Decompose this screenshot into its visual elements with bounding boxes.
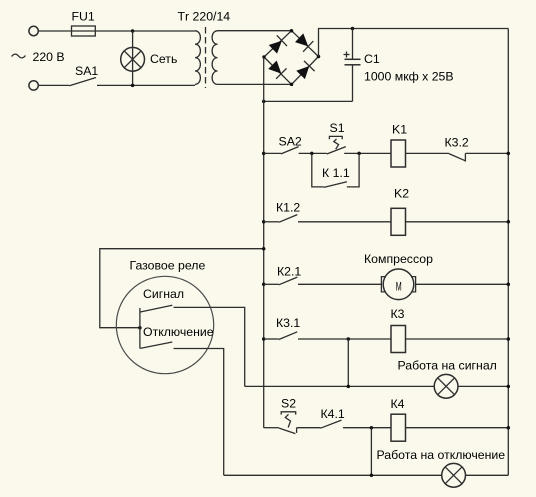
svg-text:Отключение: Отключение: [143, 325, 214, 339]
svg-text:К1.2: К1.2: [276, 201, 300, 215]
svg-text:220 В: 220 В: [33, 50, 65, 64]
svg-text:К4.1: К4.1: [321, 407, 345, 421]
svg-text:К3.1: К3.1: [276, 316, 300, 330]
label К1.2: [276, 201, 300, 215]
label Сигнал: [143, 287, 184, 301]
node lamp1 branch top: [347, 337, 351, 341]
svg-text:Работа на сигнал: Работа на сигнал: [398, 358, 497, 372]
wire lamp2 branch vertical: [370, 428, 372, 476]
svg-text:Сигнал: Сигнал: [143, 287, 184, 301]
wire lamp1 to right rail: [458, 385, 508, 387]
node bridge bottom: [290, 83, 294, 87]
wire lamp2 row left: [224, 474, 442, 476]
node row4 right: [507, 337, 511, 341]
wire lamp1 branch vertical: [347, 339, 349, 386]
wire left negative rail: [263, 57, 265, 428]
transformer T1 secondary winding: [212, 31, 217, 85]
label C1: [364, 52, 380, 66]
node K1.1 branch right: [357, 152, 361, 156]
svg-text:Сеть: Сеть: [150, 52, 177, 66]
contact К2.1: [279, 277, 298, 285]
bridge arm top-left: [264, 31, 292, 57]
contact SA2: [281, 147, 299, 154]
wire row1 rail to SA2: [264, 152, 281, 154]
node C1 top junction: [351, 27, 355, 31]
lamp HL off: [442, 463, 466, 487]
node gas relay common: [138, 326, 142, 330]
relay coil К3: [391, 326, 406, 353]
terminal input top: [29, 26, 38, 35]
wire motor to right rail: [416, 283, 509, 285]
terminal input bottom: [29, 81, 38, 90]
svg-text:К3.2: К3.2: [445, 136, 469, 150]
wire K2 to right rail: [406, 221, 509, 223]
wire S2 to K4.1: [297, 427, 321, 429]
contact К3.1: [279, 332, 298, 340]
label К4.1: [321, 407, 345, 421]
wire row4 rail to K3.1: [264, 338, 279, 340]
button S1: [327, 136, 346, 154]
wire SA2 to S1: [299, 152, 327, 154]
svg-text:Работа на отключение: Работа на отключение: [377, 448, 506, 462]
wire K3.1 to K3 coil: [298, 338, 391, 340]
svg-text:Компрессор: Компрессор: [364, 252, 433, 266]
label К3.2: [445, 136, 469, 150]
wire S1 to K1 coil: [344, 152, 391, 154]
label Компрессор: [364, 252, 433, 266]
wire K1.2 to K2 coil: [298, 221, 391, 223]
label Работа на отключение: [377, 448, 506, 462]
transformer T1 primary winding: [195, 31, 200, 85]
label K2: [394, 187, 409, 201]
svg-text:SA2: SA2: [279, 135, 302, 149]
contact gas relay off: [140, 342, 172, 348]
node lamp2 branch top: [370, 426, 374, 430]
node lamp1 right: [507, 385, 511, 389]
wire fuse to transformer primary top: [95, 30, 195, 32]
wire row3 rail to K2.1: [264, 283, 279, 285]
wire bottom input to SA1: [39, 84, 70, 86]
node bridge right: [317, 55, 321, 59]
wire secondary bottom to bridge bottom node: [218, 83, 292, 85]
contact gas relay signal: [140, 305, 172, 312]
gas relay circle: [116, 276, 213, 373]
capacitor C1: [344, 29, 361, 102]
wire right positive rail: [507, 29, 509, 476]
contact К1.2: [279, 215, 298, 223]
label 220 В: [33, 50, 65, 64]
node lamp top: [131, 29, 135, 33]
diode VD4: [295, 61, 314, 80]
button S2 normally closed: [279, 412, 297, 434]
contact К4.1: [321, 420, 342, 428]
lamp Сеть: [121, 47, 145, 71]
diode VD3: [267, 60, 286, 79]
wire row2 rail to K1.2: [264, 221, 279, 223]
relay coil К4: [391, 414, 406, 441]
svg-text:Газовое реле: Газовое реле: [130, 259, 206, 273]
lamp HL signal: [434, 374, 458, 398]
fuse FU1: [72, 26, 96, 36]
motor M compressor: [381, 269, 415, 300]
wire K4.1 to K4 coil: [343, 427, 391, 429]
node row2 left: [262, 220, 266, 224]
node lamp bottom: [131, 84, 135, 88]
svg-text:C1: C1: [364, 52, 380, 66]
node row1 right: [507, 152, 511, 156]
label S2: [281, 397, 296, 411]
wire top input to fuse: [39, 30, 72, 32]
AC symbol ~: [12, 54, 26, 58]
node bridge top: [290, 29, 294, 33]
relay coil K2: [391, 208, 406, 235]
node row5 right: [507, 426, 511, 430]
wire lamp branch vertical: [132, 31, 134, 85]
transformer core: [205, 27, 207, 88]
label Работа на сигнал: [398, 358, 497, 372]
wire SA1 to transformer primary bottom: [97, 84, 195, 86]
node row3 right: [507, 283, 511, 287]
wire K3.2 to right rail: [465, 152, 508, 154]
node lamp1 branch bottom: [347, 385, 351, 389]
label К2.1: [277, 265, 301, 279]
label К3: [391, 307, 405, 321]
relay coil K1: [391, 140, 406, 167]
contact К3.2 normally closed: [449, 153, 466, 161]
svg-text:1000 мкф x 25В: 1000 мкф x 25В: [364, 70, 454, 84]
wire lamp1 row left: [245, 385, 435, 387]
svg-text:K2: K2: [394, 187, 409, 201]
label К4: [391, 397, 405, 411]
wire signal contact out: [174, 307, 245, 386]
label FU1: [72, 10, 95, 24]
label C1 value: [364, 70, 454, 84]
label S1: [330, 121, 345, 135]
node row4 left: [262, 337, 266, 341]
wire gas relay common to rail: [100, 249, 264, 328]
wire off contact out: [174, 349, 224, 476]
svg-text:FU1: FU1: [72, 10, 95, 24]
svg-text:K1: K1: [392, 123, 407, 137]
wire C1 bottom to negative rail: [264, 100, 353, 102]
wire K1 to K3.2: [406, 152, 449, 154]
diode VD2: [294, 32, 313, 51]
svg-text:М: М: [396, 281, 402, 294]
svg-text:S1: S1: [330, 121, 345, 135]
node bridge left: [262, 55, 266, 59]
svg-text:К 1.1: К 1.1: [322, 166, 350, 180]
label SA1: [75, 64, 98, 78]
switch SA1: [69, 78, 96, 86]
node row1 left: [262, 152, 266, 156]
label Отключение: [143, 325, 214, 339]
node lamp2 branch bottom: [370, 474, 374, 478]
node row3 left: [262, 283, 266, 287]
svg-text:Тr 220/14: Тr 220/14: [178, 9, 231, 23]
label К 1.1: [322, 166, 350, 180]
node K1.1 branch left: [310, 152, 314, 156]
node row2 right: [507, 220, 511, 224]
contact K1.1 branch: [312, 153, 359, 187]
wire row5 rail corner to S2: [264, 427, 279, 429]
bridge arm top-right: [292, 31, 319, 57]
label K1: [392, 123, 407, 137]
svg-text:К4: К4: [391, 397, 405, 411]
node negative rail C1 junction: [262, 100, 266, 104]
label Тr 220/14: [178, 9, 231, 23]
bridge arm bottom-left: [264, 57, 292, 84]
svg-text:К3: К3: [391, 307, 405, 321]
wire lamp2 to right rail: [466, 474, 509, 476]
label Газовое реле: [130, 259, 206, 273]
svg-text:S2: S2: [281, 397, 296, 411]
svg-text:SA1: SA1: [75, 64, 98, 78]
label К3.1: [276, 316, 300, 330]
label SA2: [279, 135, 302, 149]
wire K4 to right rail: [406, 427, 509, 429]
wire secondary top to bridge top node: [218, 30, 292, 32]
wire K3 to right rail: [406, 338, 509, 340]
wire gas relay common vertical: [139, 308, 141, 349]
label Сеть: [150, 52, 177, 66]
diode VD1: [268, 35, 287, 54]
node gas relay common rail junction: [262, 247, 266, 251]
bridge arm bottom-right: [292, 57, 319, 85]
svg-text:К2.1: К2.1: [277, 265, 301, 279]
wire K2.1 to motor: [298, 283, 381, 285]
wire bridge right node to positive rail: [319, 29, 509, 57]
